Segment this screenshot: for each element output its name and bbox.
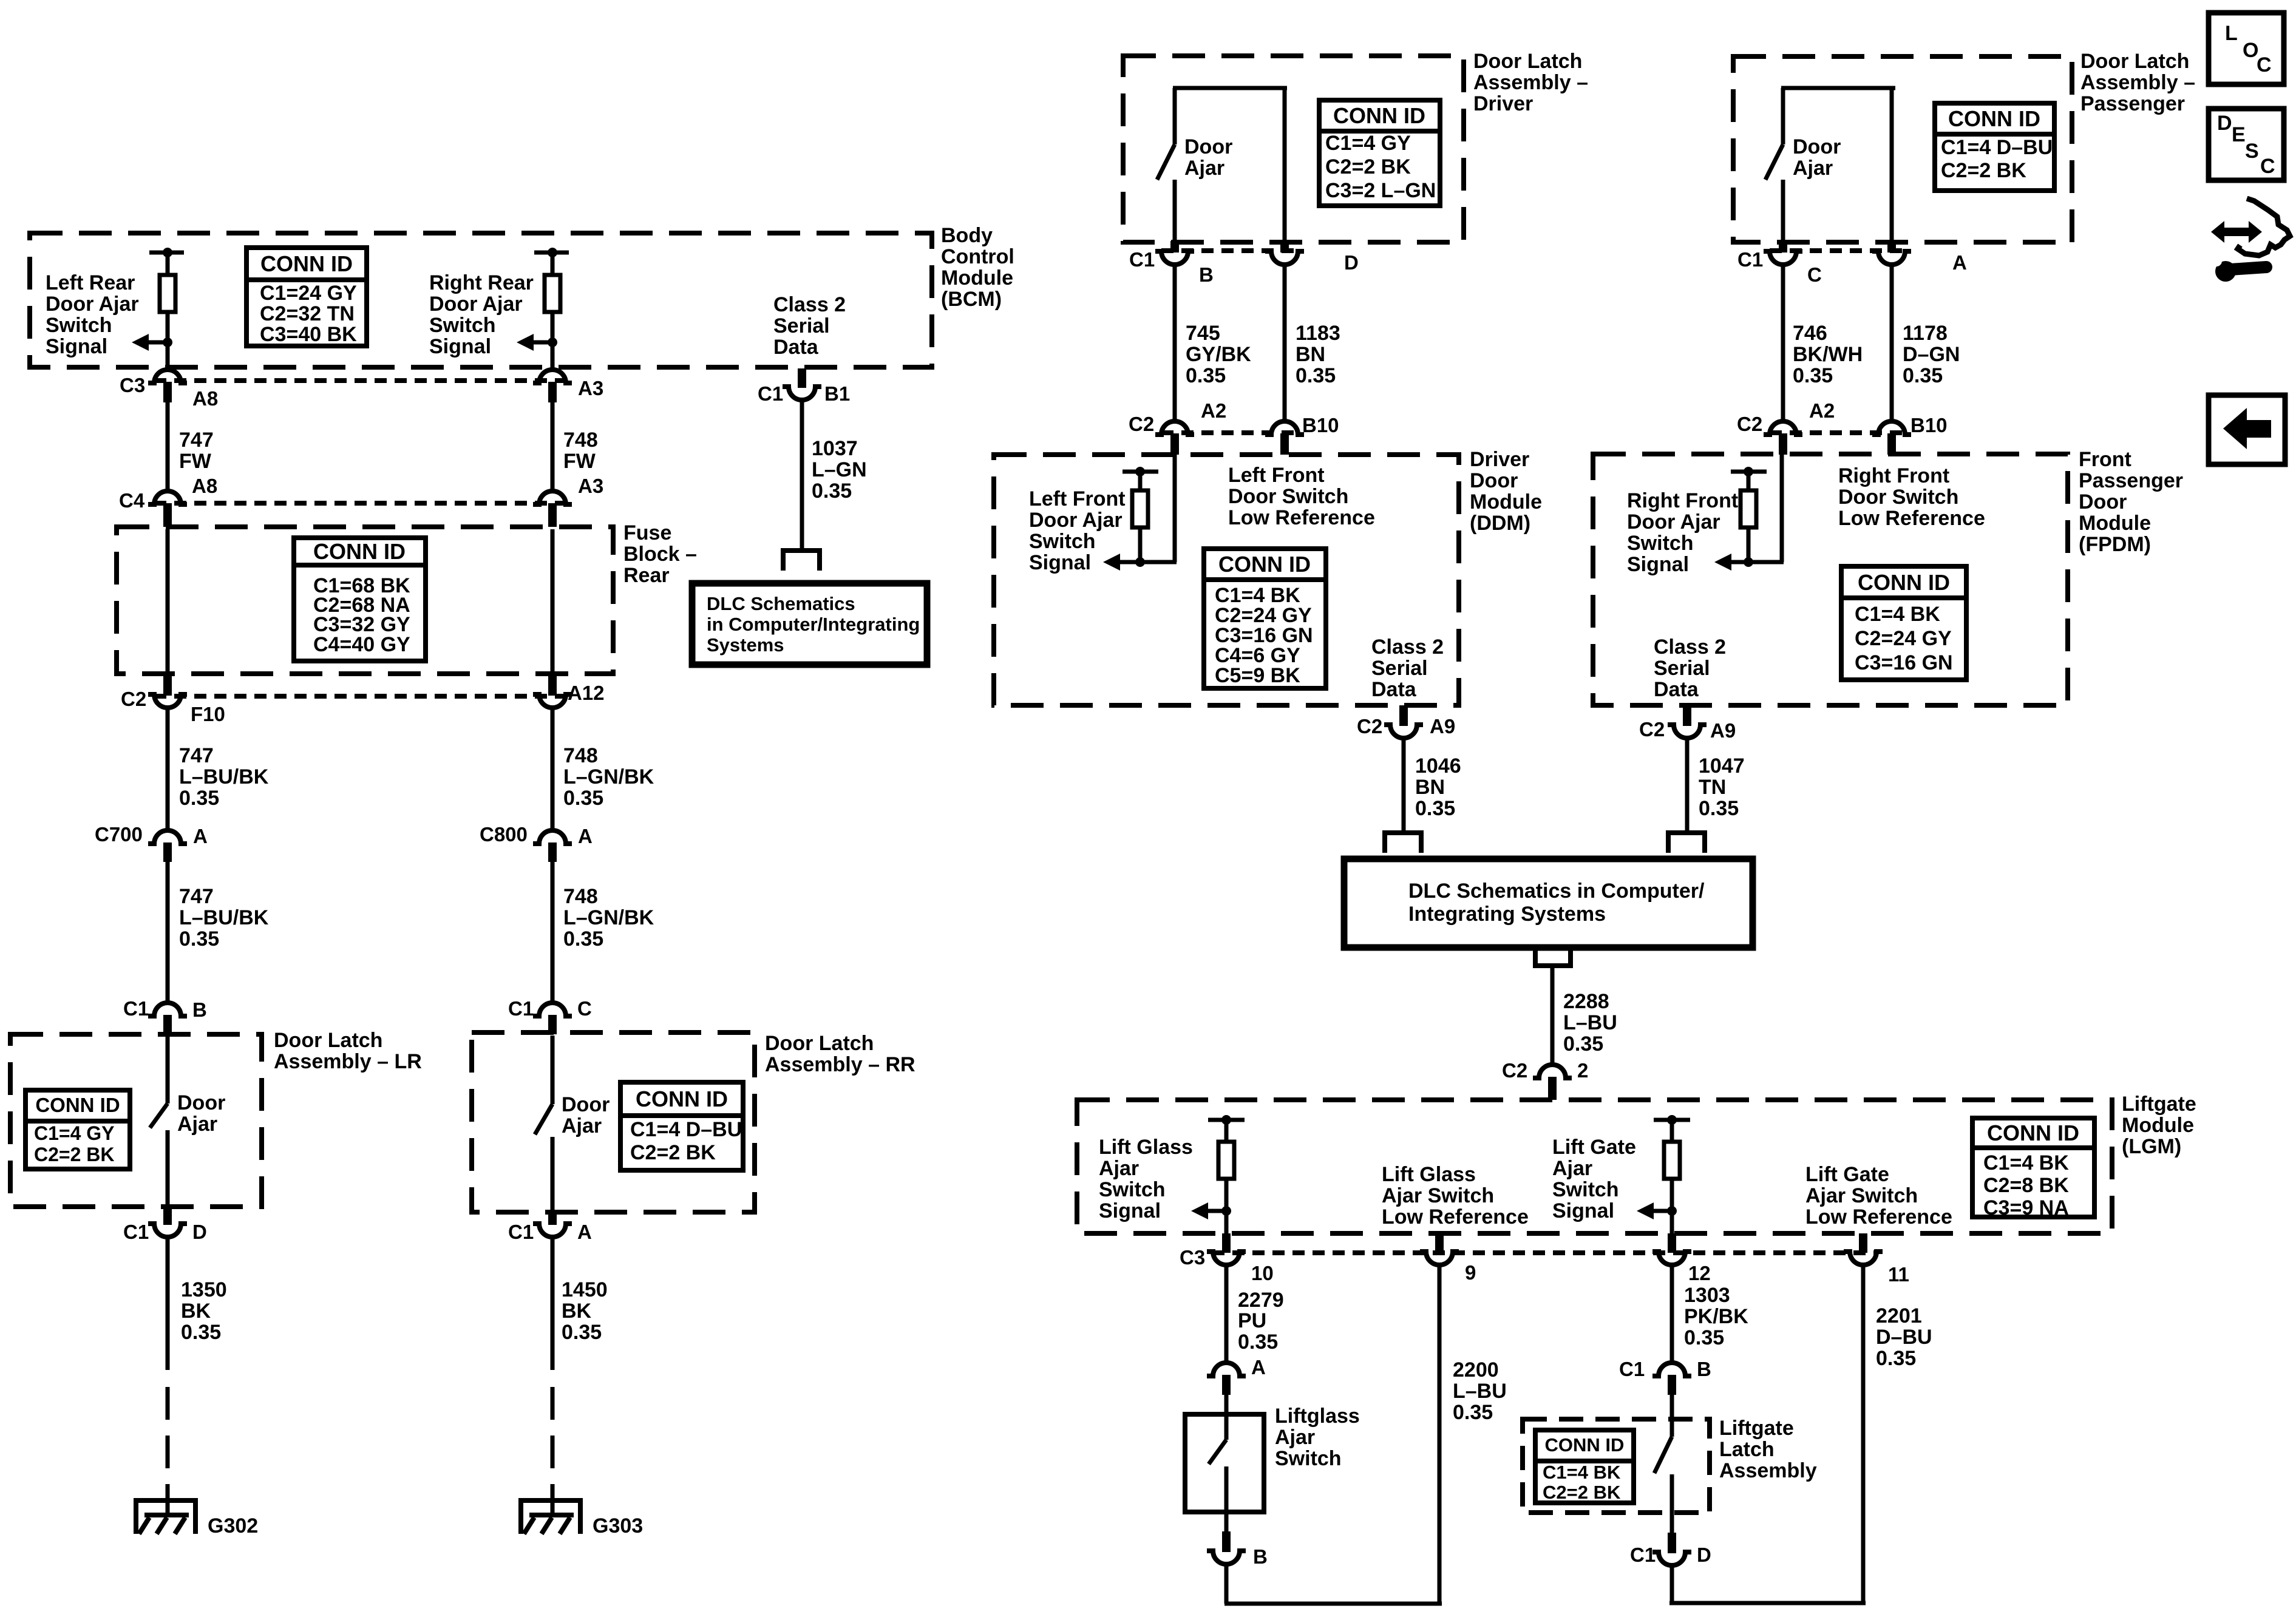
svg-text:747: 747	[179, 885, 214, 908]
svg-text:C2: C2	[1737, 413, 1762, 435]
svg-text:D: D	[1344, 251, 1359, 274]
svg-text:11: 11	[1888, 1263, 1909, 1286]
svg-text:Door Ajar: Door Ajar	[1029, 509, 1123, 532]
svg-text:C2=2 BK: C2=2 BK	[1325, 155, 1411, 178]
svg-text:L–BU: L–BU	[1453, 1380, 1507, 1403]
svg-text:CONN ID: CONN ID	[1948, 106, 2040, 131]
svg-text:Low Reference: Low Reference	[1228, 506, 1375, 529]
svg-text:C: C	[577, 997, 592, 1020]
svg-text:C2: C2	[1639, 718, 1665, 741]
svg-text:GY/BK: GY/BK	[1186, 343, 1251, 366]
svg-text:C1: C1	[758, 382, 783, 405]
svg-text:1037: 1037	[812, 437, 858, 460]
svg-text:C: C	[1807, 263, 1822, 286]
svg-text:A: A	[193, 825, 208, 847]
svg-text:A9: A9	[1430, 715, 1455, 737]
svg-text:G302: G302	[208, 1514, 258, 1537]
svg-text:C1=4 BK: C1=4 BK	[1855, 603, 1940, 626]
svg-text:A3: A3	[578, 475, 603, 497]
svg-text:C2: C2	[1357, 715, 1382, 737]
svg-text:Assembly –: Assembly –	[1473, 71, 1588, 94]
svg-text:Ajar Switch: Ajar Switch	[1382, 1184, 1494, 1207]
svg-text:0.35: 0.35	[1238, 1331, 1278, 1354]
svg-text:B10: B10	[1302, 414, 1339, 436]
svg-text:CONN ID: CONN ID	[1218, 552, 1311, 577]
svg-text:C5=9 BK: C5=9 BK	[1215, 664, 1300, 687]
svg-text:Ajar: Ajar	[1275, 1426, 1315, 1449]
svg-text:D: D	[2217, 112, 2232, 135]
svg-text:2279: 2279	[1238, 1289, 1284, 1312]
svg-text:0.35: 0.35	[1415, 797, 1455, 820]
svg-text:Switch: Switch	[1627, 532, 1694, 555]
svg-text:C4: C4	[119, 489, 145, 512]
svg-text:C2=2 BK: C2=2 BK	[630, 1141, 716, 1164]
svg-text:C2=2 BK: C2=2 BK	[1941, 159, 2026, 182]
svg-text:Lift Glass: Lift Glass	[1382, 1163, 1476, 1186]
svg-text:Door Ajar: Door Ajar	[429, 293, 523, 316]
svg-text:Serial: Serial	[773, 314, 830, 337]
svg-text:Module: Module	[941, 266, 1013, 290]
svg-text:Serial: Serial	[1654, 657, 1710, 680]
svg-text:C2=2 BK: C2=2 BK	[1543, 1482, 1621, 1503]
svg-text:2: 2	[1577, 1059, 1588, 1082]
svg-text:Switch: Switch	[46, 314, 112, 337]
svg-text:Door: Door	[1793, 135, 1841, 158]
svg-text:C1: C1	[123, 1221, 149, 1243]
svg-text:B10: B10	[1911, 414, 1948, 436]
svg-text:Serial: Serial	[1371, 657, 1428, 680]
svg-text:FW: FW	[179, 450, 212, 473]
svg-text:Driver: Driver	[1470, 448, 1529, 471]
svg-text:B: B	[192, 998, 207, 1021]
svg-text:0.35: 0.35	[1453, 1401, 1493, 1424]
svg-text:Door: Door	[562, 1093, 610, 1116]
svg-text:Low Reference: Low Reference	[1382, 1205, 1529, 1229]
svg-text:B: B	[1697, 1358, 1711, 1380]
svg-text:A8: A8	[192, 387, 218, 410]
svg-text:BN: BN	[1296, 343, 1325, 366]
svg-text:0.35: 0.35	[179, 787, 219, 810]
svg-text:Signal: Signal	[1627, 553, 1689, 576]
svg-text:A8: A8	[192, 475, 217, 497]
svg-text:C: C	[2257, 53, 2272, 76]
svg-text:BK/WH: BK/WH	[1793, 343, 1863, 366]
svg-text:0.35: 0.35	[181, 1321, 221, 1344]
svg-text:D: D	[192, 1221, 207, 1243]
svg-text:0.35: 0.35	[1563, 1032, 1603, 1056]
svg-text:L: L	[2225, 22, 2238, 45]
svg-text:CONN ID: CONN ID	[260, 251, 353, 276]
svg-text:0.35: 0.35	[1684, 1326, 1724, 1349]
svg-text:Driver: Driver	[1473, 92, 1533, 115]
svg-text:Ajar Switch: Ajar Switch	[1805, 1184, 1918, 1207]
svg-text:C1: C1	[1129, 248, 1155, 271]
svg-text:Low Reference: Low Reference	[1805, 1205, 1952, 1229]
svg-text:A3: A3	[578, 377, 603, 399]
svg-text:Assembly – RR: Assembly – RR	[765, 1053, 915, 1076]
svg-text:0.35: 0.35	[1186, 364, 1226, 387]
svg-text:C1=4 D–BU: C1=4 D–BU	[1941, 136, 2053, 159]
svg-text:Data: Data	[1371, 678, 1417, 701]
svg-text:0.35: 0.35	[1296, 364, 1336, 387]
svg-text:Liftgate: Liftgate	[2122, 1093, 2196, 1116]
svg-text:CONN ID: CONN ID	[1545, 1434, 1625, 1456]
svg-text:CONN ID: CONN ID	[35, 1094, 120, 1116]
svg-text:Signal: Signal	[1099, 1199, 1161, 1222]
svg-text:Left Front: Left Front	[1029, 487, 1126, 510]
svg-text:Class 2: Class 2	[1371, 636, 1444, 659]
svg-text:Door: Door	[1470, 469, 1518, 492]
svg-text:Assembly – LR: Assembly – LR	[274, 1050, 422, 1073]
svg-text:Control: Control	[941, 245, 1014, 268]
svg-text:Assembly: Assembly	[1719, 1459, 1817, 1482]
svg-text:C2=8 BK: C2=8 BK	[1983, 1174, 2069, 1197]
svg-text:L–GN: L–GN	[812, 458, 867, 481]
svg-text:Block –: Block –	[623, 543, 697, 566]
svg-text:2288: 2288	[1563, 990, 1609, 1013]
svg-text:G303: G303	[593, 1514, 643, 1537]
svg-text:C1=4 BK: C1=4 BK	[1983, 1151, 2069, 1175]
svg-text:A12: A12	[568, 682, 605, 704]
svg-text:1303: 1303	[1684, 1284, 1730, 1307]
svg-text:Liftglass: Liftglass	[1275, 1405, 1360, 1428]
svg-text:Ajar: Ajar	[1099, 1157, 1139, 1180]
svg-text:Assembly –: Assembly –	[2080, 71, 2195, 94]
svg-text:0.35: 0.35	[812, 480, 852, 503]
svg-text:C1=4 BK: C1=4 BK	[1543, 1462, 1621, 1483]
svg-text:C1=4 GY: C1=4 GY	[34, 1122, 115, 1144]
svg-text:C3=2 L–GN: C3=2 L–GN	[1325, 179, 1436, 202]
svg-text:Switch: Switch	[1099, 1178, 1166, 1201]
svg-text:Module: Module	[2122, 1114, 2194, 1137]
svg-text:BK: BK	[562, 1300, 592, 1323]
svg-text:Rear: Rear	[623, 564, 670, 587]
svg-text:CONN ID: CONN ID	[1987, 1120, 2079, 1145]
svg-text:Fuse: Fuse	[623, 521, 671, 544]
svg-text:Systems: Systems	[707, 634, 784, 656]
svg-text:Ajar: Ajar	[177, 1113, 217, 1136]
svg-text:(LGM): (LGM)	[2122, 1135, 2181, 1158]
svg-text:Door Latch: Door Latch	[274, 1029, 382, 1052]
svg-text:C3: C3	[1180, 1246, 1205, 1269]
svg-text:BK: BK	[181, 1300, 211, 1323]
svg-text:C1: C1	[1619, 1358, 1645, 1380]
svg-text:Lift Glass: Lift Glass	[1099, 1136, 1193, 1159]
svg-text:Low Reference: Low Reference	[1838, 507, 1985, 530]
svg-text:C: C	[2260, 155, 2275, 178]
svg-text:Lift Gate: Lift Gate	[1552, 1136, 1636, 1159]
svg-text:0.35: 0.35	[563, 927, 603, 951]
svg-text:745: 745	[1186, 322, 1220, 345]
svg-text:Body: Body	[941, 224, 993, 247]
svg-text:Class 2: Class 2	[773, 293, 846, 316]
svg-text:Door Latch: Door Latch	[765, 1032, 874, 1055]
svg-text:Module: Module	[2079, 512, 2151, 535]
svg-text:C3=40 BK: C3=40 BK	[260, 323, 357, 346]
svg-text:748: 748	[563, 744, 598, 767]
svg-text:Door Switch: Door Switch	[1228, 485, 1348, 508]
svg-text:C1: C1	[508, 1221, 534, 1243]
svg-text:L–GN/BK: L–GN/BK	[563, 765, 654, 788]
svg-text:0.35: 0.35	[179, 927, 219, 951]
svg-text:Signal: Signal	[1552, 1199, 1614, 1222]
svg-text:in Computer/Integrating: in Computer/Integrating	[707, 614, 920, 635]
svg-text:12: 12	[1688, 1262, 1711, 1284]
svg-text:C700: C700	[95, 823, 143, 846]
svg-text:A2: A2	[1201, 399, 1226, 422]
svg-text:CONN ID: CONN ID	[313, 539, 406, 564]
svg-text:C3: C3	[120, 374, 145, 396]
svg-text:Lift Gate: Lift Gate	[1805, 1163, 1889, 1186]
svg-text:A2: A2	[1809, 399, 1835, 422]
svg-text:B: B	[1253, 1545, 1268, 1568]
svg-text:D: D	[1697, 1544, 1711, 1566]
svg-text:Switch: Switch	[1029, 530, 1096, 553]
svg-text:C3=16 GN: C3=16 GN	[1855, 651, 1953, 674]
svg-text:CONN ID: CONN ID	[1858, 570, 1950, 595]
svg-text:747: 747	[179, 744, 214, 767]
svg-text:C2=24 GY: C2=24 GY	[1855, 627, 1952, 650]
svg-text:1350: 1350	[181, 1278, 227, 1301]
svg-text:Data: Data	[1654, 678, 1699, 701]
svg-text:CONN ID: CONN ID	[636, 1086, 728, 1111]
svg-text:Ajar: Ajar	[1793, 157, 1833, 180]
svg-text:1183: 1183	[1296, 322, 1340, 345]
svg-text:1178: 1178	[1903, 322, 1948, 345]
svg-text:E: E	[2232, 123, 2246, 146]
svg-text:748: 748	[563, 885, 598, 908]
svg-text:C1: C1	[1737, 248, 1763, 271]
svg-text:BN: BN	[1415, 776, 1445, 799]
svg-text:B: B	[1199, 263, 1214, 286]
svg-text:A: A	[1251, 1356, 1266, 1378]
svg-text:1047: 1047	[1699, 754, 1745, 778]
svg-text:1450: 1450	[562, 1278, 608, 1301]
svg-text:L–BU: L–BU	[1563, 1011, 1617, 1034]
svg-text:Signal: Signal	[429, 335, 491, 358]
svg-text:S: S	[2245, 140, 2259, 163]
svg-text:Ajar: Ajar	[1184, 157, 1224, 180]
svg-text:L–BU/BK: L–BU/BK	[179, 765, 269, 788]
svg-text:Door Switch: Door Switch	[1838, 486, 1958, 509]
svg-text:CONN ID: CONN ID	[1333, 103, 1425, 128]
svg-text:L–GN/BK: L–GN/BK	[563, 906, 654, 929]
svg-text:Data: Data	[773, 336, 819, 359]
svg-text:2200: 2200	[1453, 1358, 1499, 1381]
svg-text:Left Rear: Left Rear	[46, 271, 135, 294]
svg-text:Liftgate: Liftgate	[1719, 1417, 1794, 1440]
svg-text:DLC Schematics in Computer/: DLC Schematics in Computer/	[1408, 880, 1705, 903]
svg-text:0.35: 0.35	[1793, 364, 1833, 387]
svg-text:PK/BK: PK/BK	[1684, 1305, 1748, 1328]
svg-text:Signal: Signal	[1029, 551, 1091, 574]
svg-text:TN: TN	[1699, 776, 1726, 799]
svg-text:Switch: Switch	[1275, 1447, 1342, 1470]
svg-text:(DDM): (DDM)	[1470, 512, 1530, 535]
svg-text:Left Front: Left Front	[1228, 464, 1325, 487]
svg-text:DLC Schematics: DLC Schematics	[707, 593, 855, 614]
svg-text:Right Front: Right Front	[1627, 489, 1738, 512]
svg-text:Latch: Latch	[1719, 1438, 1775, 1461]
svg-text:Class 2: Class 2	[1654, 636, 1726, 659]
svg-text:Switch: Switch	[1552, 1178, 1619, 1201]
svg-text:0.35: 0.35	[1876, 1347, 1916, 1370]
svg-text:Ajar: Ajar	[1552, 1157, 1592, 1180]
svg-text:C2: C2	[1129, 413, 1154, 435]
svg-text:748: 748	[563, 429, 598, 452]
svg-text:C1=4 D–BU: C1=4 D–BU	[630, 1118, 742, 1141]
svg-text:Door Ajar: Door Ajar	[1627, 510, 1720, 534]
svg-text:C1: C1	[123, 997, 149, 1020]
svg-text:C1=4 GY: C1=4 GY	[1325, 132, 1411, 155]
svg-text:Door Latch: Door Latch	[1473, 50, 1582, 73]
svg-text:C2=32 TN: C2=32 TN	[260, 302, 355, 325]
svg-text:A: A	[1952, 251, 1967, 274]
svg-text:D–BU: D–BU	[1876, 1326, 1932, 1349]
svg-text:9: 9	[1465, 1261, 1476, 1284]
svg-text:A9: A9	[1710, 719, 1736, 742]
svg-text:0.35: 0.35	[563, 787, 603, 810]
svg-text:Door: Door	[2079, 490, 2127, 514]
svg-text:C3=9 NA: C3=9 NA	[1983, 1196, 2069, 1219]
svg-text:A: A	[578, 825, 593, 847]
svg-text:Door: Door	[1184, 135, 1232, 158]
svg-text:A: A	[577, 1221, 592, 1243]
svg-text:F10: F10	[191, 703, 225, 725]
svg-text:B1: B1	[824, 382, 850, 405]
svg-text:C2: C2	[1502, 1059, 1527, 1082]
svg-text:746: 746	[1793, 322, 1827, 345]
svg-text:C1: C1	[508, 997, 534, 1020]
svg-text:Door: Door	[177, 1091, 225, 1114]
svg-text:2201: 2201	[1876, 1304, 1922, 1327]
svg-text:PU: PU	[1238, 1309, 1266, 1332]
svg-text:C800: C800	[480, 823, 528, 846]
svg-text:C4=40 GY: C4=40 GY	[313, 633, 410, 656]
svg-text:C1: C1	[1630, 1544, 1656, 1566]
svg-text:747: 747	[179, 429, 214, 452]
svg-text:0.35: 0.35	[562, 1321, 602, 1344]
svg-text:C1=24 GY: C1=24 GY	[260, 282, 357, 305]
svg-text:(FPDM): (FPDM)	[2079, 533, 2151, 556]
svg-text:D–GN: D–GN	[1903, 343, 1960, 366]
svg-text:0.35: 0.35	[1699, 797, 1739, 820]
svg-text:Ajar: Ajar	[562, 1114, 602, 1137]
svg-text:C2=2 BK: C2=2 BK	[34, 1144, 115, 1165]
svg-text:Passenger: Passenger	[2079, 469, 2183, 492]
svg-text:Right Front: Right Front	[1838, 464, 1949, 487]
svg-text:Switch: Switch	[429, 314, 496, 337]
svg-text:Right Rear: Right Rear	[429, 271, 534, 294]
svg-text:Door Latch: Door Latch	[2080, 50, 2189, 73]
svg-text:Front: Front	[2079, 448, 2131, 471]
svg-text:10: 10	[1251, 1262, 1274, 1284]
svg-text:Door Ajar: Door Ajar	[46, 293, 139, 316]
svg-text:C2: C2	[121, 688, 146, 710]
svg-text:Passenger: Passenger	[2080, 92, 2185, 115]
svg-text:(BCM): (BCM)	[941, 288, 1002, 311]
svg-text:L–BU/BK: L–BU/BK	[179, 906, 269, 929]
svg-text:Integrating Systems: Integrating Systems	[1408, 903, 1606, 926]
svg-text:Module: Module	[1470, 490, 1542, 514]
svg-text:1046: 1046	[1415, 754, 1461, 778]
svg-text:FW: FW	[563, 450, 596, 473]
svg-text:Signal: Signal	[46, 335, 107, 358]
svg-text:0.35: 0.35	[1903, 364, 1943, 387]
